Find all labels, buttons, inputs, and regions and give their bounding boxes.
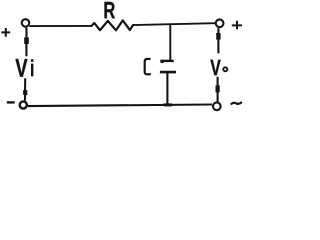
plus sign top-left [1, 28, 10, 37]
capacitor C bottom plate [160, 71, 176, 74]
label C [145, 59, 150, 75]
wire top-left horizontal [29, 25, 91, 27]
junction blob at bottom rail [164, 103, 173, 106]
wire stub above bottom-left terminal [24, 78, 26, 100]
minus sign bottom-left [7, 101, 15, 103]
wire top-right horizontal [133, 23, 215, 25]
label Vo : V [210, 60, 220, 75]
plus sign top-right [232, 21, 242, 30]
resistor R (zigzag) [92, 20, 134, 30]
polarity arrow blob on left bottom stub [23, 90, 27, 95]
label R [105, 2, 115, 18]
terminal circle bottom-right [213, 102, 221, 110]
label Vi : i dot [31, 59, 34, 62]
terminal circle bottom-left [20, 101, 27, 108]
wire bottom rail [28, 105, 212, 107]
terminal circle top-left [22, 19, 30, 27]
capacitor C top plate [160, 60, 173, 62]
wire stub below top-left terminal [25, 28, 27, 57]
tilde minus bottom-right [231, 103, 241, 104]
wire stub above bottom-right terminal [217, 77, 219, 102]
capacitor bottom lead [166, 73, 168, 106]
terminal circle top-right [216, 19, 224, 27]
wire stub below top-right terminal [217, 28, 219, 53]
label Vi : V [15, 59, 27, 77]
polarity arrow blob on left top stub [24, 37, 29, 44]
capacitor top lead [169, 24, 171, 60]
polarity arrow blob on right top stub [216, 33, 220, 40]
label Vi : i stem [31, 64, 33, 77]
label Vo : subscript o [223, 67, 227, 71]
polarity arrow blob on right bottom stub [216, 85, 220, 92]
